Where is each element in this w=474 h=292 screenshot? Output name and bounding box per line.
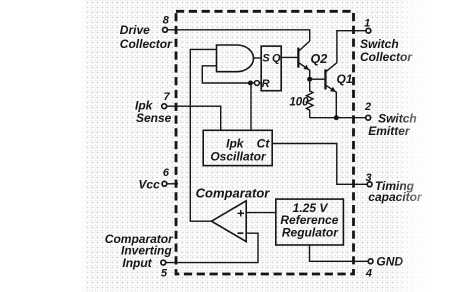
pin 4 GND terminal (368, 259, 373, 264)
wire AND output to latch S (254, 57, 262, 59)
reference regulator box (276, 199, 344, 245)
wire regulator ground to pin4 (310, 245, 368, 261)
pin 1 terminal (366, 28, 371, 33)
svg-text:6: 6 (163, 167, 170, 179)
wire latch Q to Q2 base (281, 56, 298, 58)
svg-text:Regulator: Regulator (282, 226, 339, 240)
wire pin6 Vcc stub (167, 183, 178, 185)
svg-text:Collector: Collector (120, 37, 173, 51)
svg-text:Q2: Q2 (311, 52, 328, 66)
wire oscillator output up to R node (250, 83, 252, 130)
wire Q2 emitter node to Q1 base (310, 78, 325, 80)
pin 3 terminal (367, 182, 372, 187)
wire pin1 to Q1 collector (337, 31, 366, 63)
wire pin5 to comparator inverting input (166, 233, 258, 262)
AND gate U1 (217, 45, 254, 72)
comparator - input mark (238, 232, 244, 234)
svg-text:Drive: Drive (120, 23, 150, 37)
svg-text:Q: Q (272, 52, 281, 64)
wire oscillator Ct to pin3 (272, 144, 367, 185)
wire pin7 to oscillator Ipk input (167, 106, 221, 130)
svg-text:Switch: Switch (360, 37, 399, 51)
pin 2 terminal (366, 115, 371, 120)
wire oscillator line to AND gate input B and latch R (202, 66, 254, 83)
svg-text:S: S (262, 52, 270, 64)
svg-text:Input: Input (122, 256, 152, 270)
svg-text:Oscillator: Oscillator (210, 149, 267, 163)
pin 6 terminal (162, 181, 167, 186)
transistor Q1 (324, 63, 337, 118)
svg-text:Sense: Sense (136, 111, 172, 125)
resistor 100 ohm (306, 79, 313, 118)
svg-text:5: 5 (161, 268, 168, 280)
wire R bubble stub (259, 82, 261, 84)
IC package boundary (dashed) (176, 11, 354, 274)
pin 5 terminal (161, 260, 166, 265)
svg-text:100: 100 (289, 97, 309, 109)
svg-text:4: 4 (365, 267, 372, 279)
comparator + input mark (238, 210, 245, 216)
comparator op-amp triangle (212, 201, 247, 242)
wire comparator output to AND gate input A (190, 49, 216, 221)
transistor Q2 (297, 41, 310, 79)
svg-text:8: 8 (163, 15, 170, 27)
svg-text:2: 2 (364, 101, 371, 113)
node: Q1 emitter / resistor bottom / pin2 (334, 115, 339, 120)
latch U2 box (261, 46, 281, 91)
svg-text:Q1: Q1 (337, 72, 353, 86)
wire pin8 to Q2 collector (168, 30, 310, 41)
node: oscillator/R junction (248, 81, 253, 86)
wire regulator output to comparator + input (246, 212, 276, 214)
oscillator box (203, 130, 272, 165)
pin 7 terminal (162, 104, 167, 109)
svg-text:3: 3 (366, 172, 372, 184)
svg-text:Vcc: Vcc (138, 177, 160, 191)
svg-text:1: 1 (364, 17, 370, 29)
svg-text:R: R (262, 78, 270, 90)
wire pin2 to Q1 emitter node (336, 117, 365, 119)
svg-text:Comparator: Comparator (196, 185, 271, 200)
latch R inversion bubble (255, 81, 260, 86)
wire resistor bottom to Q1 emitter node (310, 117, 337, 119)
pin 8 terminal (163, 27, 168, 32)
svg-text:7: 7 (163, 91, 170, 103)
node: Q2 emitter / Q1 base / resistor top (307, 77, 312, 82)
